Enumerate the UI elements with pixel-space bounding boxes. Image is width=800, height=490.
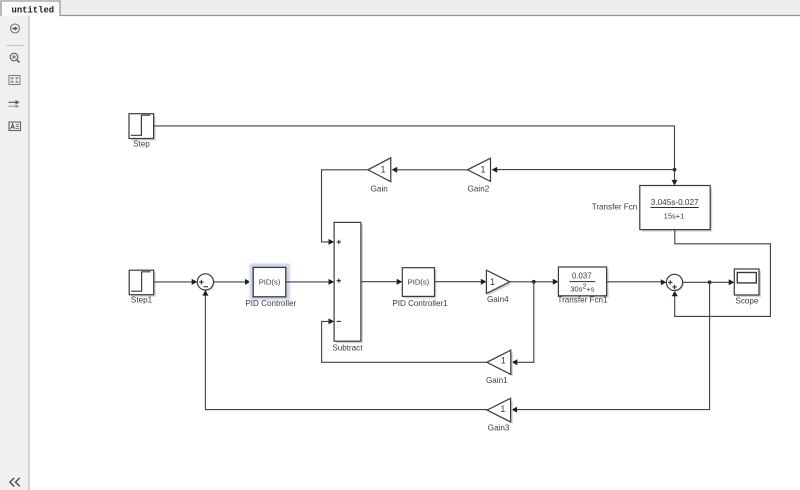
wire Gain2 to Gain [392, 167, 468, 173]
block Transfer Fcn1 [558, 267, 608, 298]
svg-text:Transfer Fcn: Transfer Fcn [592, 203, 638, 212]
svg-text:PID Controller: PID Controller [245, 299, 296, 308]
block Step1 [129, 270, 156, 297]
gain Gain1 [487, 350, 513, 376]
block Transfer Fcn [640, 186, 712, 232]
junction node on Gain4 output [532, 280, 536, 284]
gain Gain [368, 158, 391, 182]
svg-text:Subtract: Subtract [332, 344, 363, 353]
svg-text:PID(s): PID(s) [259, 277, 281, 286]
toolbar icon: double arrow [9, 100, 20, 108]
block PID Controller1 [402, 268, 436, 299]
tab bar [0, 0, 800, 16]
gain Gain4 [486, 270, 511, 295]
wire branch to Gain2 [492, 167, 675, 173]
collapse chevrons [10, 478, 20, 487]
junction node on Add1 output [708, 280, 712, 284]
wire PID Controller to Subtract [286, 279, 334, 285]
wire PID Controller1 to Gain4 [435, 279, 487, 285]
wire Step to Transfer Fcn (down) [154, 126, 678, 186]
svg-text:Gain2: Gain2 [468, 184, 490, 193]
wire Gain3 to Sum bottom [202, 290, 487, 410]
toolbar icon: pan/hand circle-arrow [11, 24, 20, 33]
wire branch down to Gain3 [512, 282, 710, 412]
wire Gain1 to Subtract minus [322, 318, 487, 362]
svg-text:PID Controller1: PID Controller1 [392, 299, 448, 308]
svg-text:Transfer Fcn1: Transfer Fcn1 [557, 295, 608, 304]
wire branch down to Gain1 [512, 282, 534, 366]
svg-text:0.037: 0.037 [572, 271, 592, 280]
svg-text:1: 1 [380, 165, 385, 175]
left toolbar strip [0, 16, 29, 490]
sum Add1 (++) [666, 274, 683, 291]
gain Gain3 [487, 398, 512, 424]
svg-text:Gain4: Gain4 [487, 295, 509, 304]
toolbar icon: zoom magnifier [10, 53, 19, 62]
block Scope [734, 269, 761, 297]
block Step [129, 114, 156, 141]
svg-text:3.045s-0.027: 3.045s-0.027 [651, 198, 699, 207]
junction node at Transfer Fcn branch [673, 168, 677, 172]
svg-text:1: 1 [480, 165, 485, 175]
wire Gain to Subtract plus [322, 170, 368, 245]
wire Transfer Fcn to Add1 bottom [672, 230, 771, 317]
svg-text:1: 1 [500, 404, 505, 414]
svg-text:untitled: untitled [12, 6, 55, 16]
block PID Controller [253, 267, 286, 296]
svg-text:Step1: Step1 [131, 296, 153, 305]
svg-text:1: 1 [490, 277, 495, 287]
toolbar icon: fit to view [9, 76, 20, 85]
active tab "untitled" [1, 1, 60, 16]
wire Step1 to Sum [154, 279, 198, 285]
svg-text:Gain: Gain [371, 184, 388, 193]
wire Sum to PID Controller [214, 279, 251, 285]
wire Transfer Fcn1 to Add1 [607, 279, 667, 285]
svg-text:Step: Step [133, 139, 150, 148]
svg-text:Gain1: Gain1 [486, 376, 508, 385]
wire Subtract to PID Controller1 [361, 279, 402, 285]
sum Sum (+-) [197, 274, 214, 291]
svg-text:1: 1 [501, 356, 506, 366]
block Subtract [334, 222, 363, 343]
toolbar icon: annotation A [9, 122, 21, 131]
wire Add1 to Scope [683, 279, 735, 285]
selection halo of PID Controller [249, 263, 291, 301]
svg-text:15s+1: 15s+1 [664, 212, 685, 221]
svg-text:Scope: Scope [735, 297, 758, 306]
toolbar separator [6, 45, 24, 47]
wire Gain4 to Transfer Fcn1 [510, 279, 559, 285]
svg-text:Gain3: Gain3 [488, 424, 510, 433]
gain Gain2 [467, 158, 490, 181]
svg-text:PID(s): PID(s) [408, 278, 430, 287]
